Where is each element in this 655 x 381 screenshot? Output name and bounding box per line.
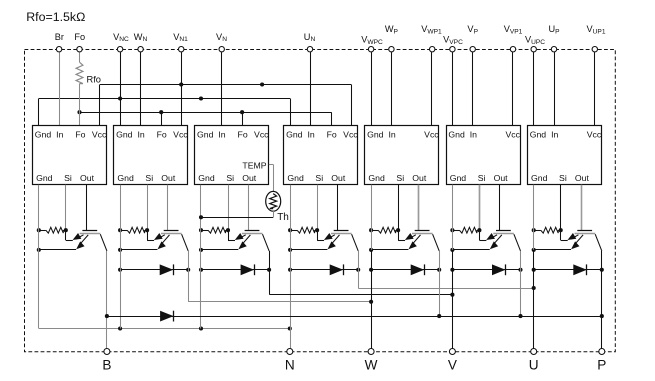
svg-text:Out: Out <box>331 173 346 183</box>
svg-text:Gnd: Gnd <box>531 173 548 183</box>
svg-text:Si: Si <box>478 173 486 183</box>
svg-text:Fo: Fo <box>75 130 85 140</box>
svg-text:V: V <box>448 357 457 372</box>
svg-text:In: In <box>388 130 395 140</box>
svg-text:Si: Si <box>145 173 153 183</box>
svg-text:Fo: Fo <box>74 32 85 42</box>
svg-text:Gnd: Gnd <box>530 130 547 140</box>
svg-text:Gnd: Gnd <box>286 130 303 140</box>
svg-text:Fo: Fo <box>157 130 167 140</box>
svg-text:Out: Out <box>494 173 509 183</box>
svg-text:Fo: Fo <box>238 130 248 140</box>
svg-text:Rfo=1.5kΩ: Rfo=1.5kΩ <box>26 10 85 24</box>
svg-text:Gnd: Gnd <box>117 173 134 183</box>
svg-text:B: B <box>102 357 111 372</box>
svg-text:Br: Br <box>55 32 64 42</box>
svg-text:Gnd: Gnd <box>198 173 215 183</box>
svg-text:Vcc: Vcc <box>92 130 107 140</box>
svg-text:Rfo: Rfo <box>87 75 101 85</box>
svg-text:Gnd: Gnd <box>450 173 467 183</box>
svg-text:Out: Out <box>242 173 257 183</box>
svg-text:In: In <box>307 130 314 140</box>
svg-text:Out: Out <box>412 173 427 183</box>
svg-text:Gnd: Gnd <box>36 173 53 183</box>
svg-text:Si: Si <box>559 173 567 183</box>
svg-text:Gnd: Gnd <box>448 130 465 140</box>
svg-text:Gnd: Gnd <box>35 130 52 140</box>
svg-text:P: P <box>597 357 606 372</box>
svg-text:Out: Out <box>161 173 176 183</box>
svg-text:Vcc: Vcc <box>587 130 602 140</box>
svg-text:Si: Si <box>64 173 72 183</box>
svg-text:Fo: Fo <box>327 130 337 140</box>
svg-text:Th: Th <box>277 212 289 223</box>
svg-text:TEMP: TEMP <box>242 160 266 170</box>
svg-text:Gnd: Gnd <box>368 173 385 183</box>
svg-text:Vcc: Vcc <box>254 130 269 140</box>
svg-text:In: In <box>218 130 225 140</box>
svg-text:Vcc: Vcc <box>505 130 520 140</box>
svg-text:Out: Out <box>80 173 95 183</box>
svg-text:Gnd: Gnd <box>116 130 133 140</box>
svg-text:Si: Si <box>226 173 234 183</box>
svg-text:Vcc: Vcc <box>343 130 358 140</box>
svg-text:Si: Si <box>396 173 404 183</box>
svg-text:Out: Out <box>575 173 590 183</box>
svg-text:W: W <box>365 357 378 372</box>
svg-text:U: U <box>529 357 539 372</box>
svg-text:Vcc: Vcc <box>173 130 188 140</box>
svg-text:In: In <box>56 130 63 140</box>
svg-text:N: N <box>285 357 295 372</box>
svg-text:Gnd: Gnd <box>197 130 214 140</box>
svg-text:In: In <box>137 130 144 140</box>
svg-text:Vcc: Vcc <box>424 130 439 140</box>
svg-text:In: In <box>470 130 477 140</box>
svg-text:In: In <box>551 130 558 140</box>
svg-text:Gnd: Gnd <box>367 130 384 140</box>
svg-text:Si: Si <box>315 173 323 183</box>
svg-text:Gnd: Gnd <box>287 173 304 183</box>
